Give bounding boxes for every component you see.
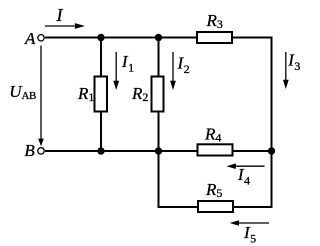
svg-text:I: I bbox=[56, 5, 64, 25]
svg-text:B: B bbox=[24, 141, 35, 160]
svg-text:A: A bbox=[24, 29, 36, 48]
